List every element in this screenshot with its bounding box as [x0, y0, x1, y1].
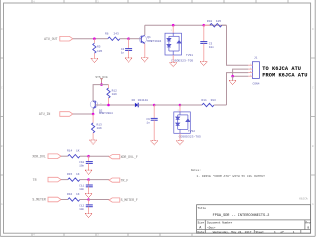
svg-text:105: 105 — [216, 20, 221, 23]
resistor R6 — [105, 33, 120, 41]
svg-text:R16: R16 — [67, 193, 72, 196]
svg-text:TO K6JCA ATU: TO K6JCA ATU — [262, 66, 301, 72]
svg-text:Size: Size — [198, 220, 205, 224]
border zone tick marks left and right — [0, 58, 315, 175]
port TR — [33, 177, 61, 182]
power symbol SYS_DIG — [95, 76, 107, 85]
svg-text:J1: J1 — [254, 57, 258, 60]
TVS diode array TVS2 — [174, 112, 191, 133]
pin TVS1 top — [172, 25, 174, 33]
node junction row1 — [87, 155, 90, 158]
svg-text:K6JCA: K6JCA — [299, 197, 308, 200]
svg-text:CON4: CON4 — [253, 82, 260, 85]
notes text — [191, 169, 265, 178]
svg-text:TR: TR — [33, 178, 37, 182]
svg-text:10K: 10K — [97, 127, 102, 130]
resistor R13 — [92, 114, 102, 140]
svg-text:10K: 10K — [112, 93, 117, 96]
capacitor C12 — [79, 200, 93, 214]
svg-text:Date:: Date: — [198, 231, 206, 234]
ground below Q1 — [141, 58, 148, 62]
svg-text:C6: C6 — [146, 118, 150, 121]
pin TVS1 bottom — [172, 55, 174, 63]
svg-text:105: 105 — [97, 50, 102, 53]
ground below connector — [229, 80, 236, 84]
capacitor C4 — [121, 39, 132, 58]
node power tie — [100, 83, 103, 86]
wire ground tie drop — [232, 76, 234, 80]
capacitor C11 — [79, 180, 93, 194]
svg-text:R10: R10 — [207, 20, 212, 23]
ground below R5 — [91, 58, 98, 62]
wire node to Q1 base — [129, 38, 142, 40]
ground below C4 — [125, 58, 132, 62]
connector J1 CON4 — [252, 57, 259, 86]
svg-text:C12: C12 — [79, 204, 84, 207]
port ATU_OUT — [44, 36, 73, 41]
svg-text:R6: R6 — [105, 33, 109, 36]
wire port to R14 — [61, 155, 68, 157]
port TR_F — [109, 178, 128, 182]
svg-text:10n: 10n — [79, 208, 84, 211]
wire ATU_IN to node — [73, 113, 93, 115]
svg-text:R5: R5 — [97, 45, 101, 48]
wire top rail — [145, 24, 227, 26]
svg-text:1n: 1n — [146, 121, 150, 124]
transistor Q1 — [139, 35, 161, 43]
ground below C3 — [200, 62, 207, 66]
svg-text:10n: 10n — [209, 46, 214, 49]
wire Q1 collector riser — [144, 25, 146, 35]
pin 4 — [248, 75, 252, 77]
svg-text:1n: 1n — [121, 52, 125, 55]
svg-text:393: 393 — [211, 99, 216, 102]
ground below R13 — [90, 140, 97, 144]
svg-text:S_METER: S_METER — [32, 198, 45, 202]
node junction ATU_OUT/R5 — [93, 37, 96, 40]
node junction rail/C3 — [203, 24, 206, 27]
port XDR_DVL — [32, 154, 61, 159]
border zone tick marks top — [32, 0, 288, 3]
capacitor C6 — [146, 105, 157, 141]
resistor R15 — [67, 173, 80, 181]
wire pin 3 riser from FROM-ATU row — [227, 73, 249, 105]
svg-text:10n: 10n — [79, 165, 84, 168]
diode D6 — [132, 99, 149, 107]
svg-text:CDSOD323-T05: CDSOD323-T05 — [179, 134, 201, 138]
node junction row2 — [87, 178, 90, 181]
svg-text:C3: C3 — [209, 42, 213, 45]
capacitor C10 — [79, 156, 93, 170]
sheet outer border left — [0, 0, 1, 236]
TVS diode array TVS1 — [165, 33, 182, 55]
ground below C6 — [151, 141, 158, 145]
port XDR_DVL_F — [109, 155, 138, 159]
ground below TVS1 — [170, 63, 177, 67]
wire Q1 emitter to ground — [144, 44, 146, 58]
svg-text:Document Number: Document Number — [207, 220, 232, 224]
ground below C11 — [85, 194, 92, 198]
resistor R11 — [202, 99, 227, 107]
svg-text:XDR_DVL_F: XDR_DVL_F — [121, 155, 138, 159]
wire port to R15 — [61, 179, 68, 181]
node junction R6/C4/Q1 base — [127, 37, 130, 40]
svg-text:MMBT3904: MMBT3904 — [99, 112, 113, 115]
svg-text:TVS1: TVS1 — [186, 54, 193, 57]
wire port to R16 — [61, 199, 68, 201]
wire SYS_DIG rail — [93, 85, 108, 102]
svg-text:MMBT3904: MMBT3904 — [147, 40, 161, 43]
svg-text:of: of — [281, 230, 285, 234]
wire TVS2 node to R11 — [180, 104, 202, 106]
svg-text:R12: R12 — [112, 89, 117, 92]
wire Q2 base row — [95, 104, 135, 106]
capacitor C3 — [200, 25, 214, 61]
svg-text:FROM K6JCA ATU: FROM K6JCA ATU — [262, 73, 307, 79]
svg-text:XDR_DVL: XDR_DVL — [32, 154, 45, 158]
port ATU_IN — [39, 112, 73, 117]
wire pins 2,4 to ground — [233, 69, 249, 76]
border zone tick marks bottom — [32, 233, 192, 236]
wire node to output port — [89, 199, 109, 201]
svg-text:Q1: Q1 — [147, 36, 151, 39]
resistor R16 — [67, 193, 80, 201]
svg-text:ATU_IN: ATU_IN — [39, 112, 51, 116]
svg-text:CDSOD323-T05: CDSOD323-T05 — [171, 59, 193, 63]
svg-text:C10: C10 — [79, 161, 84, 164]
pin 3 — [248, 72, 252, 74]
svg-text:1K: 1K — [76, 193, 80, 196]
node junction ground tie — [231, 75, 234, 78]
wire Q2 emitter drop — [92, 109, 94, 115]
svg-text:R15: R15 — [67, 173, 72, 176]
sheet outer border bottom — [0, 235, 315, 237]
pin 2 — [248, 68, 252, 70]
svg-text:S_METER_F: S_METER_F — [121, 198, 138, 202]
ground below C12 — [85, 213, 92, 217]
svg-text:R13: R13 — [97, 124, 102, 127]
port S_METER — [32, 197, 61, 202]
svg-text:Notes:: Notes: — [191, 169, 201, 172]
svg-text:1K: 1K — [76, 150, 80, 153]
svg-text:TVS2: TVS2 — [188, 130, 195, 133]
wire R15 to node — [80, 179, 89, 181]
wire D6 to C6 node — [138, 104, 154, 106]
svg-text:C11: C11 — [79, 184, 84, 187]
resistor R10 — [204, 20, 227, 27]
node junction R12/base row — [107, 104, 110, 107]
pin 1 — [248, 64, 252, 66]
resistor R14 — [67, 150, 80, 158]
node junction C6 — [153, 104, 156, 107]
svg-text:Sheet: Sheet — [256, 230, 265, 234]
sheet outer border right — [314, 0, 316, 236]
resistor R5 — [93, 39, 103, 59]
port S_METER_F — [109, 198, 138, 202]
resistor R12 — [107, 85, 117, 105]
node junction TVS2 — [179, 104, 182, 107]
wire ATU_OUT to node — [73, 38, 95, 40]
svg-text:1. DRIVE "FROM ATU" WITH 5V C: 1. DRIVE "FROM ATU" WITH 5V CZL OUTPUT — [197, 174, 266, 178]
svg-text:Rev: Rev — [306, 221, 311, 224]
svg-text:<Doc>: <Doc> — [207, 225, 216, 229]
pin TVS2 top — [179, 105, 181, 112]
svg-text:TR_F: TR_F — [121, 178, 129, 182]
svg-text:D6: D6 — [132, 99, 136, 102]
ground below TVS2 — [176, 141, 183, 145]
svg-text:C4: C4 — [121, 48, 125, 51]
svg-text:FPGA_SDR -- INTERCONNECTS-2: FPGA_SDR -- INTERCONNECTS-2 — [213, 214, 270, 218]
svg-text:10n: 10n — [79, 188, 84, 191]
svg-text:R11: R11 — [202, 99, 207, 102]
ground below C10 — [85, 170, 92, 174]
node junction ATU_IN/R13/emitter — [92, 113, 95, 116]
wire C6 node to TVS2 node — [154, 104, 180, 106]
pin TVS2 bottom — [179, 133, 181, 140]
wire rail down to connector pin 1 — [227, 25, 249, 65]
wire R16 to node — [80, 199, 89, 201]
svg-text:ATU_OUT: ATU_OUT — [44, 37, 57, 41]
svg-text:Title: Title — [198, 206, 207, 210]
wire node to R6 — [94, 38, 107, 40]
wire node to output port — [89, 155, 109, 157]
svg-text:243: 243 — [114, 33, 119, 36]
wire R6 to node C4 — [120, 38, 129, 40]
svg-text:1K: 1K — [76, 173, 80, 176]
wire node to output port — [89, 179, 109, 181]
svg-text:Wednesday, May 24, 2017: Wednesday, May 24, 2017 — [213, 230, 252, 234]
transistor Q2 — [90, 101, 113, 115]
svg-text:R14: R14 — [67, 150, 72, 153]
node junction row3 — [87, 198, 90, 201]
svg-text:1N4148: 1N4148 — [138, 99, 149, 102]
node junction rail/TVS1 — [172, 24, 175, 27]
wire R14 to node — [80, 155, 89, 157]
